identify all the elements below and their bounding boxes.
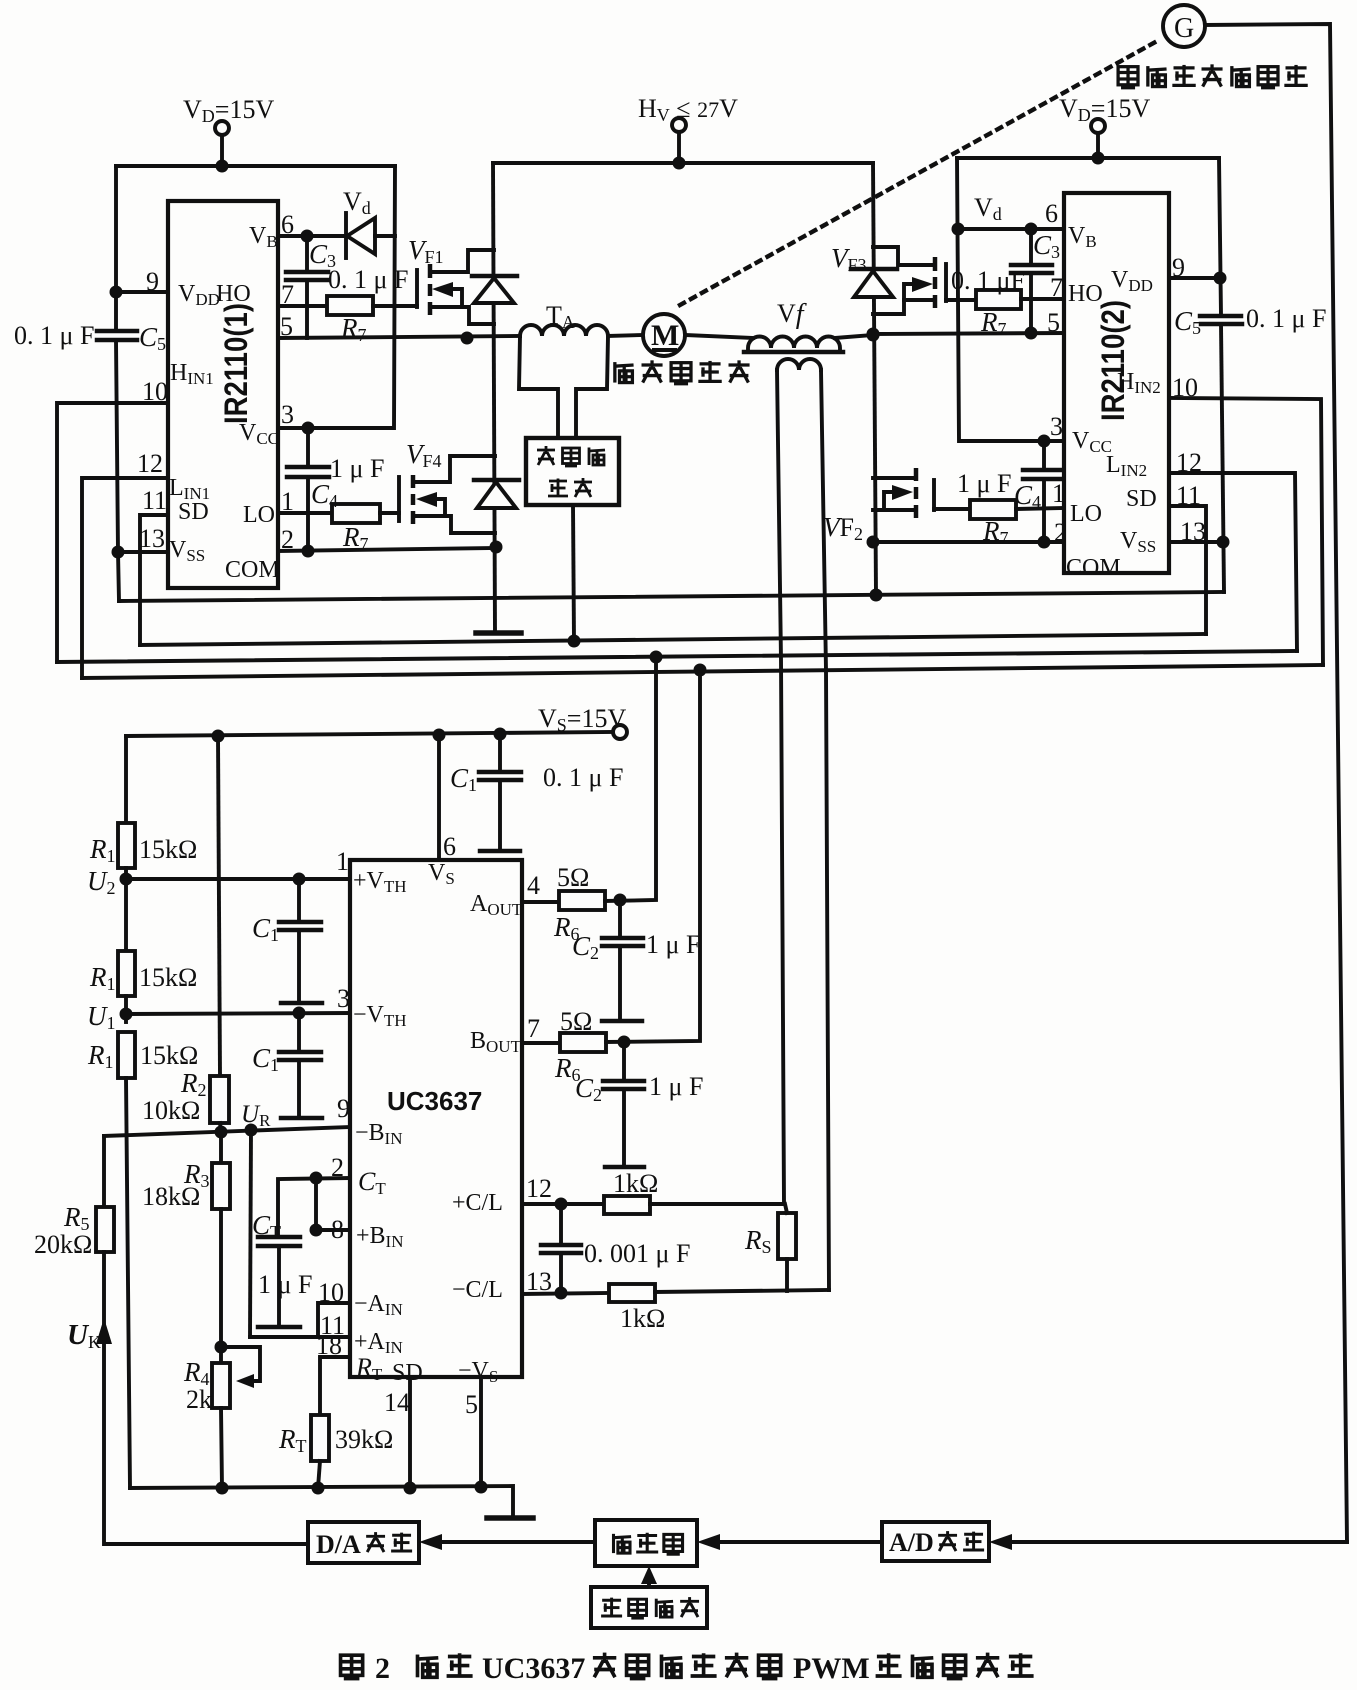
wire pin 12 LIN1	[82, 478, 168, 678]
svg-text:0. 1 μ F: 0. 1 μ F	[1246, 304, 1326, 333]
svg-text:SD: SD	[392, 1360, 423, 1386]
svg-text:7: 7	[527, 1014, 540, 1043]
svg-text:5Ω: 5Ω	[557, 863, 589, 892]
text DC tachometer generator (7 chars)	[1118, 67, 1138, 88]
wire R3 link	[219, 1132, 223, 1163]
node pin2/C4 right	[1038, 536, 1051, 549]
svg-text:COM: COM	[1066, 555, 1121, 581]
arrow into A/D	[989, 1534, 1012, 1550]
ground (bottom)	[487, 1515, 533, 1521]
dotted shaft link motor to tachometer G	[680, 40, 1159, 305]
wire left bridge leg (x=494)	[493, 163, 495, 633]
svg-text:3: 3	[337, 984, 350, 1013]
svg-text:M: M	[651, 319, 679, 352]
node U2	[120, 873, 133, 886]
node on HV rail	[673, 157, 686, 170]
wire RT pin 18	[320, 1357, 350, 1415]
wire pin 4 Aout	[522, 900, 559, 904]
node Bout/C2b	[618, 1036, 631, 1049]
svg-text:9: 9	[1172, 253, 1185, 282]
wire U1 to -Vth	[126, 1013, 350, 1014]
text computer (3 chars)	[614, 1534, 632, 1553]
node Vd wire left	[952, 223, 965, 236]
svg-text:13: 13	[139, 524, 165, 553]
wire pin 12 +C/L	[522, 1202, 604, 1206]
node right leg / ground bus	[870, 589, 883, 602]
wire R2 column	[218, 736, 220, 1076]
wire pin 7 HO right	[1021, 297, 1064, 301]
svg-text:2: 2	[281, 525, 294, 554]
wire G to A/D column	[1205, 24, 1347, 1542]
inductor Vf armature coil	[748, 337, 840, 349]
svg-text:18kΩ: 18kΩ	[142, 1182, 200, 1211]
svg-text:9: 9	[337, 1094, 350, 1123]
wire U2 to +Vth	[126, 877, 350, 881]
capacitor C1b (-Vth/-Bin)	[297, 1013, 301, 1051]
svg-text:IR2110(2): IR2110(2)	[1095, 300, 1131, 421]
svg-text:LO: LO	[243, 502, 275, 528]
node on right VD rail	[1092, 152, 1105, 165]
svg-text:12: 12	[1176, 448, 1202, 477]
resistor R7 (lower left)	[332, 504, 380, 523]
capacitor C5 (left 0.1uF)	[97, 329, 137, 334]
node switch node	[461, 332, 474, 345]
capacitor C1 (Vs 0.1uF)	[498, 734, 502, 771]
capacitor C4 (left 1uF)	[306, 428, 310, 466]
node pin8	[310, 1224, 323, 1237]
wire divider column top	[124, 736, 128, 823]
svg-text:PWM: PWM	[793, 1652, 870, 1685]
svg-text:1 μ F: 1 μ F	[330, 454, 384, 483]
wire VCC rail drop (x=394)	[278, 166, 395, 428]
diode (VF3 freewheel, inline)	[851, 267, 897, 272]
svg-text:3: 3	[1050, 412, 1063, 441]
wire C5 column upper	[1219, 158, 1221, 315]
node pin6/C3	[301, 230, 314, 243]
node COM/VF4 source	[490, 541, 503, 554]
node pin13 VSS	[112, 546, 125, 559]
svg-text:11: 11	[142, 486, 167, 515]
node U2/C1a	[293, 873, 306, 886]
capacitor C3 (right)	[1029, 229, 1033, 264]
Vs=15V supply terminal	[613, 725, 627, 739]
svg-text:15kΩ: 15kΩ	[139, 963, 197, 992]
svg-text:13: 13	[1180, 517, 1206, 546]
wire VDD column upper	[114, 166, 118, 329]
wire VDD column lower to VSS	[116, 340, 119, 601]
capacitor C1a (+Vth/-Vth)	[297, 879, 301, 921]
wire pin 10 HIN1	[57, 403, 168, 662]
VD=15V supply terminal (right)	[1091, 119, 1105, 133]
wire pin 1 LO	[278, 511, 332, 515]
wire UR to +Ain	[250, 1130, 251, 1337]
svg-text:1: 1	[336, 847, 349, 876]
transformer TA secondary loop	[519, 336, 558, 438]
wire switch node (pin5 to TA)	[278, 336, 520, 338]
svg-text:11: 11	[1176, 481, 1201, 510]
node bus/pin5	[475, 1481, 488, 1494]
wire Uk feedback column	[102, 1136, 106, 1207]
wire pin 6 Vs	[437, 735, 441, 860]
svg-text:D/A: D/A	[316, 1530, 361, 1559]
resistor R1 (bottom 15k)	[118, 1032, 135, 1078]
svg-text:1 μ F: 1 μ F	[258, 1270, 312, 1299]
svg-text:0. 001 μ F: 0. 001 μ F	[584, 1239, 690, 1268]
capacitor C3 (left)	[305, 236, 309, 271]
svg-text:2k: 2k	[186, 1385, 212, 1414]
node on left VD rail	[216, 160, 229, 173]
node AOUT tap	[650, 651, 663, 664]
wire computer to D/A	[440, 1540, 595, 1544]
IC U1 IR2110(1) box	[168, 201, 278, 588]
potentiometer R4 (2k)	[212, 1363, 230, 1408]
wire Vf field right leg down to -C/L	[821, 370, 829, 1290]
node bus/pin14	[404, 1482, 417, 1495]
wire pin 11 SD	[140, 515, 168, 645]
svg-text:15kΩ: 15kΩ	[140, 1041, 198, 1070]
node pin2/C4	[302, 545, 315, 558]
svg-text:1kΩ: 1kΩ	[620, 1304, 665, 1333]
svg-text:6: 6	[281, 210, 294, 239]
wire +Ain pin 11	[250, 1335, 350, 1339]
resistor R6 (Aout 5ohm)	[559, 891, 605, 910]
svg-text:20kΩ: 20kΩ	[34, 1230, 92, 1259]
generator G circle	[1163, 5, 1205, 47]
arrow into D/A	[419, 1534, 442, 1550]
resistor R7 (lower right)	[970, 500, 1016, 519]
text setpoint signal (4 chars)	[601, 1598, 622, 1616]
resistor 1k (upper)	[604, 1196, 650, 1214]
caption figure 2	[341, 1655, 363, 1678]
resistor 1k (lower)	[609, 1284, 655, 1302]
Hv supply terminal	[672, 118, 686, 132]
arrow into computer from setpoint	[641, 1566, 657, 1584]
svg-text:1 μ F: 1 μ F	[646, 930, 700, 959]
svg-text:5: 5	[280, 312, 293, 341]
svg-text:5Ω: 5Ω	[560, 1007, 592, 1036]
IC U3 UC3637 box	[350, 860, 522, 1377]
node UR tap	[245, 1124, 258, 1137]
node pin2/main leg	[867, 536, 880, 549]
node pin13 VSS right	[1217, 536, 1230, 549]
arrow into computer	[697, 1534, 720, 1550]
resistor R7 (upper right)	[976, 290, 1021, 309]
node VCC/C4 right	[1038, 435, 1051, 448]
node protection/SD	[568, 635, 581, 648]
wire pin 2 COM	[278, 548, 496, 551]
resistor R1 (middle 15k)	[118, 951, 135, 996]
svg-text:A/D: A/D	[889, 1528, 934, 1557]
svg-text:4: 4	[527, 871, 540, 900]
VD=15V supply terminal (left)	[215, 121, 229, 135]
capacitor C2a (1uF)	[618, 900, 622, 937]
resistor R2 (10k)	[210, 1076, 229, 1123]
svg-text:10: 10	[142, 377, 168, 406]
svg-text:12: 12	[526, 1174, 552, 1203]
transistor VF2 (low side MOSFET right)	[914, 468, 919, 481]
wire pin 13 VSS right	[1169, 540, 1223, 544]
motor M circle	[643, 314, 685, 356]
IC U2 IR2110(2) box	[1064, 193, 1169, 573]
resistor RT (39k)	[311, 1415, 329, 1461]
wire pin 2 COM right	[873, 540, 1064, 544]
svg-text:Vf: Vf	[777, 299, 807, 330]
wire motor to Vf	[685, 335, 753, 338]
node R4 wiper	[215, 1341, 228, 1354]
svg-text:7: 7	[281, 280, 294, 309]
svg-text:VD=15V: VD=15V	[1059, 94, 1150, 125]
wire setpoint to computer	[647, 1578, 651, 1587]
wire R7 to VF1 gate	[373, 304, 417, 308]
resistor R3 (18k)	[212, 1163, 230, 1209]
wire Vf to right leg	[835, 335, 873, 338]
node U1	[120, 1008, 133, 1021]
node 0.001uF top	[555, 1198, 568, 1211]
node R2/R3	[215, 1126, 228, 1139]
wire divider column bottom to bus	[126, 1078, 130, 1488]
node Vs/R2	[212, 730, 225, 743]
svg-text:1 μ F: 1 μ F	[649, 1072, 703, 1101]
svg-text:SD: SD	[178, 499, 209, 525]
svg-text:1: 1	[1052, 479, 1065, 508]
box overcurrent protection	[526, 438, 619, 505]
svg-text:VS=15V: VS=15V	[538, 704, 626, 735]
svg-text:18: 18	[316, 1331, 342, 1360]
wire pin 7 Bout	[522, 1041, 560, 1045]
wire Bout to LIN1/HIN2 net	[606, 670, 700, 1042]
node bus/RT	[312, 1482, 325, 1495]
text overcurrent protection (2 lines)	[537, 446, 555, 465]
Vf core bar	[744, 350, 843, 355]
wire bottom ground bus	[130, 1486, 513, 1516]
wire C5 column lower	[1221, 324, 1224, 592]
wire pin 10 HIN2	[1169, 398, 1323, 665]
svg-text:6: 6	[443, 832, 456, 861]
node Vs/pin6	[433, 729, 446, 742]
wire 1k to RS bottom / Vf leg	[655, 1290, 829, 1292]
wire TA to motor	[608, 335, 643, 336]
ground (left leg)	[476, 630, 521, 636]
node pin6/C3 right	[1025, 223, 1038, 236]
node main leg/pin5	[867, 328, 880, 341]
svg-text:SD: SD	[1126, 486, 1157, 512]
inductor TA primary coil	[520, 325, 608, 336]
svg-text:1kΩ: 1kΩ	[613, 1169, 658, 1198]
wire AOUT net (HIN1-LIN2)	[57, 651, 1297, 662]
arrow Uk up	[96, 1318, 112, 1344]
diode Vd (left bootstrap)	[344, 213, 348, 258]
svg-text:7: 7	[1050, 273, 1063, 302]
wire pin 14 SD stub	[408, 1377, 412, 1488]
capacitor 0.001uF	[559, 1204, 563, 1244]
wire pin 13 VSS	[118, 550, 168, 554]
svg-text:2: 2	[331, 1153, 344, 1182]
inductor Vf field winding	[777, 359, 821, 370]
transistor VF4 (low side MOSFET)	[397, 477, 401, 521]
wire 1k to RS top	[650, 1202, 784, 1206]
wire pin 6 VB	[278, 234, 346, 238]
wire pin2 to pin8	[314, 1178, 318, 1230]
svg-text:3: 3	[281, 400, 294, 429]
wire +Bin pin 8	[316, 1228, 350, 1232]
svg-text:2: 2	[1054, 518, 1067, 547]
diode (VF4 freewheel, inline)	[474, 478, 519, 483]
node U1/C1b	[293, 1007, 306, 1020]
svg-text:0. 1 μ F: 0. 1 μ F	[14, 321, 94, 350]
wire	[220, 135, 224, 166]
wire A/D to computer	[718, 1540, 882, 1544]
node C4 top	[302, 422, 315, 435]
svg-text:15kΩ: 15kΩ	[139, 835, 197, 864]
node Aout/C2a	[614, 894, 627, 907]
node bus/R4	[216, 1482, 229, 1495]
svg-text:UC3637: UC3637	[482, 1652, 585, 1685]
wire G column to A/D	[1010, 1540, 1347, 1544]
wire VCC drop (x=957)	[957, 158, 1064, 441]
node pin9/C5 right	[1214, 272, 1227, 285]
wire pin 11 SD right	[1169, 506, 1206, 634]
resistor R1 (top 15k)	[118, 823, 135, 868]
wire Vs rail	[126, 732, 613, 736]
svg-text:1: 1	[281, 487, 294, 516]
wire left VD rail	[116, 164, 395, 168]
wire pin 1 LO right	[1016, 508, 1064, 509]
capacitor C2b (1uF)	[622, 1042, 626, 1080]
wire pin 9 VDD	[116, 290, 168, 294]
box computer	[595, 1520, 697, 1566]
svg-text:10: 10	[318, 1278, 344, 1307]
box D/A converter	[308, 1522, 419, 1563]
capacitor C4 (right 1uF)	[1042, 441, 1046, 469]
wire HV rail	[493, 161, 873, 165]
svg-text:6: 6	[1045, 199, 1058, 228]
svg-text:14: 14	[384, 1388, 410, 1417]
wire Vf field left leg down to +C/L	[777, 370, 784, 1204]
wire protection to SD net	[573, 505, 574, 641]
svg-text:2: 2	[375, 1652, 390, 1685]
wire -Ain pin 10	[318, 1303, 350, 1337]
node BOUT tap	[694, 664, 707, 677]
svg-text:1 μ F: 1 μ F	[957, 469, 1011, 498]
wire pin 6 VB (Vd link)	[958, 227, 1064, 231]
wire pin 5 (right switch node link)	[873, 333, 1064, 334]
svg-text:12: 12	[137, 449, 163, 478]
wire R7 to VF4 gate	[380, 511, 399, 515]
text controlled motor (5 chars)	[615, 362, 634, 382]
transistor VF3 (high side MOSFET right)	[873, 247, 935, 265]
wire -Bin / UR	[104, 1127, 350, 1136]
svg-text:0. 1 μ F: 0. 1 μ F	[328, 265, 408, 294]
svg-text:9: 9	[146, 267, 159, 296]
svg-text:0. 1 μ F: 0. 1 μ F	[543, 763, 623, 792]
svg-text:10kΩ: 10kΩ	[142, 1096, 200, 1125]
svg-text:UC3637: UC3637	[387, 1086, 482, 1116]
svg-text:G: G	[1174, 13, 1194, 44]
svg-text:39kΩ: 39kΩ	[335, 1425, 393, 1454]
node 0.001uF bottom	[555, 1287, 568, 1300]
wire pin 7 HO	[278, 304, 327, 308]
capacitor C5 (right 0.1uF)	[1200, 314, 1241, 319]
svg-text:13: 13	[526, 1267, 552, 1296]
wire pin 13 -C/L	[522, 1293, 609, 1294]
wire right VD rail	[957, 156, 1219, 160]
wire pin 12 LIN2	[1169, 473, 1297, 651]
svg-text:VD=15V: VD=15V	[183, 95, 274, 126]
node C3/pin5 right	[1025, 327, 1038, 340]
svg-text:LO: LO	[1070, 501, 1102, 527]
svg-text:−C/L: −C/L	[452, 1277, 503, 1303]
svg-text:+C/L: +C/L	[452, 1190, 503, 1216]
node Vs/C1	[494, 728, 507, 741]
resistor R6 (Bout 5ohm)	[560, 1033, 606, 1052]
svg-text:8: 8	[331, 1215, 344, 1244]
svg-text:COM: COM	[225, 557, 280, 583]
svg-text:5: 5	[465, 1390, 478, 1419]
wire Aout to HIN1/LIN2 net	[605, 657, 656, 901]
diode (VF1 freewheel, inline)	[472, 274, 517, 279]
box A/D converter	[882, 1522, 989, 1561]
svg-text:0. 1 μF: 0. 1 μF	[951, 266, 1025, 295]
svg-text:IR2110(1): IR2110(1)	[218, 303, 254, 424]
resistor RS sense	[778, 1213, 796, 1259]
svg-text:10: 10	[1172, 373, 1198, 402]
svg-text:5: 5	[1047, 308, 1060, 337]
node CT/pin2	[310, 1172, 323, 1185]
node right switch node	[867, 329, 880, 342]
resistor R7 (upper left)	[327, 296, 373, 315]
capacitor CT (1uF)	[278, 1178, 350, 1236]
wire right bridge leg (x=873)	[873, 163, 876, 595]
resistor R5 (20k)	[96, 1207, 114, 1252]
wire pin 9 VDD right	[1169, 276, 1220, 280]
wire BOUT net (LIN1-HIN2)	[82, 665, 1323, 678]
wire pin 5 -Vs stub	[479, 1377, 483, 1487]
transistor VF1 (high side MOSFET)	[415, 270, 419, 307]
wire ground bus (VSS1-VF2-C5)	[119, 592, 1224, 601]
svg-text:HV ≤ 27V: HV ≤ 27V	[638, 94, 738, 125]
wire SD net	[140, 634, 1206, 645]
node pin9 VDD	[110, 286, 123, 299]
box setpoint signal	[591, 1587, 707, 1628]
